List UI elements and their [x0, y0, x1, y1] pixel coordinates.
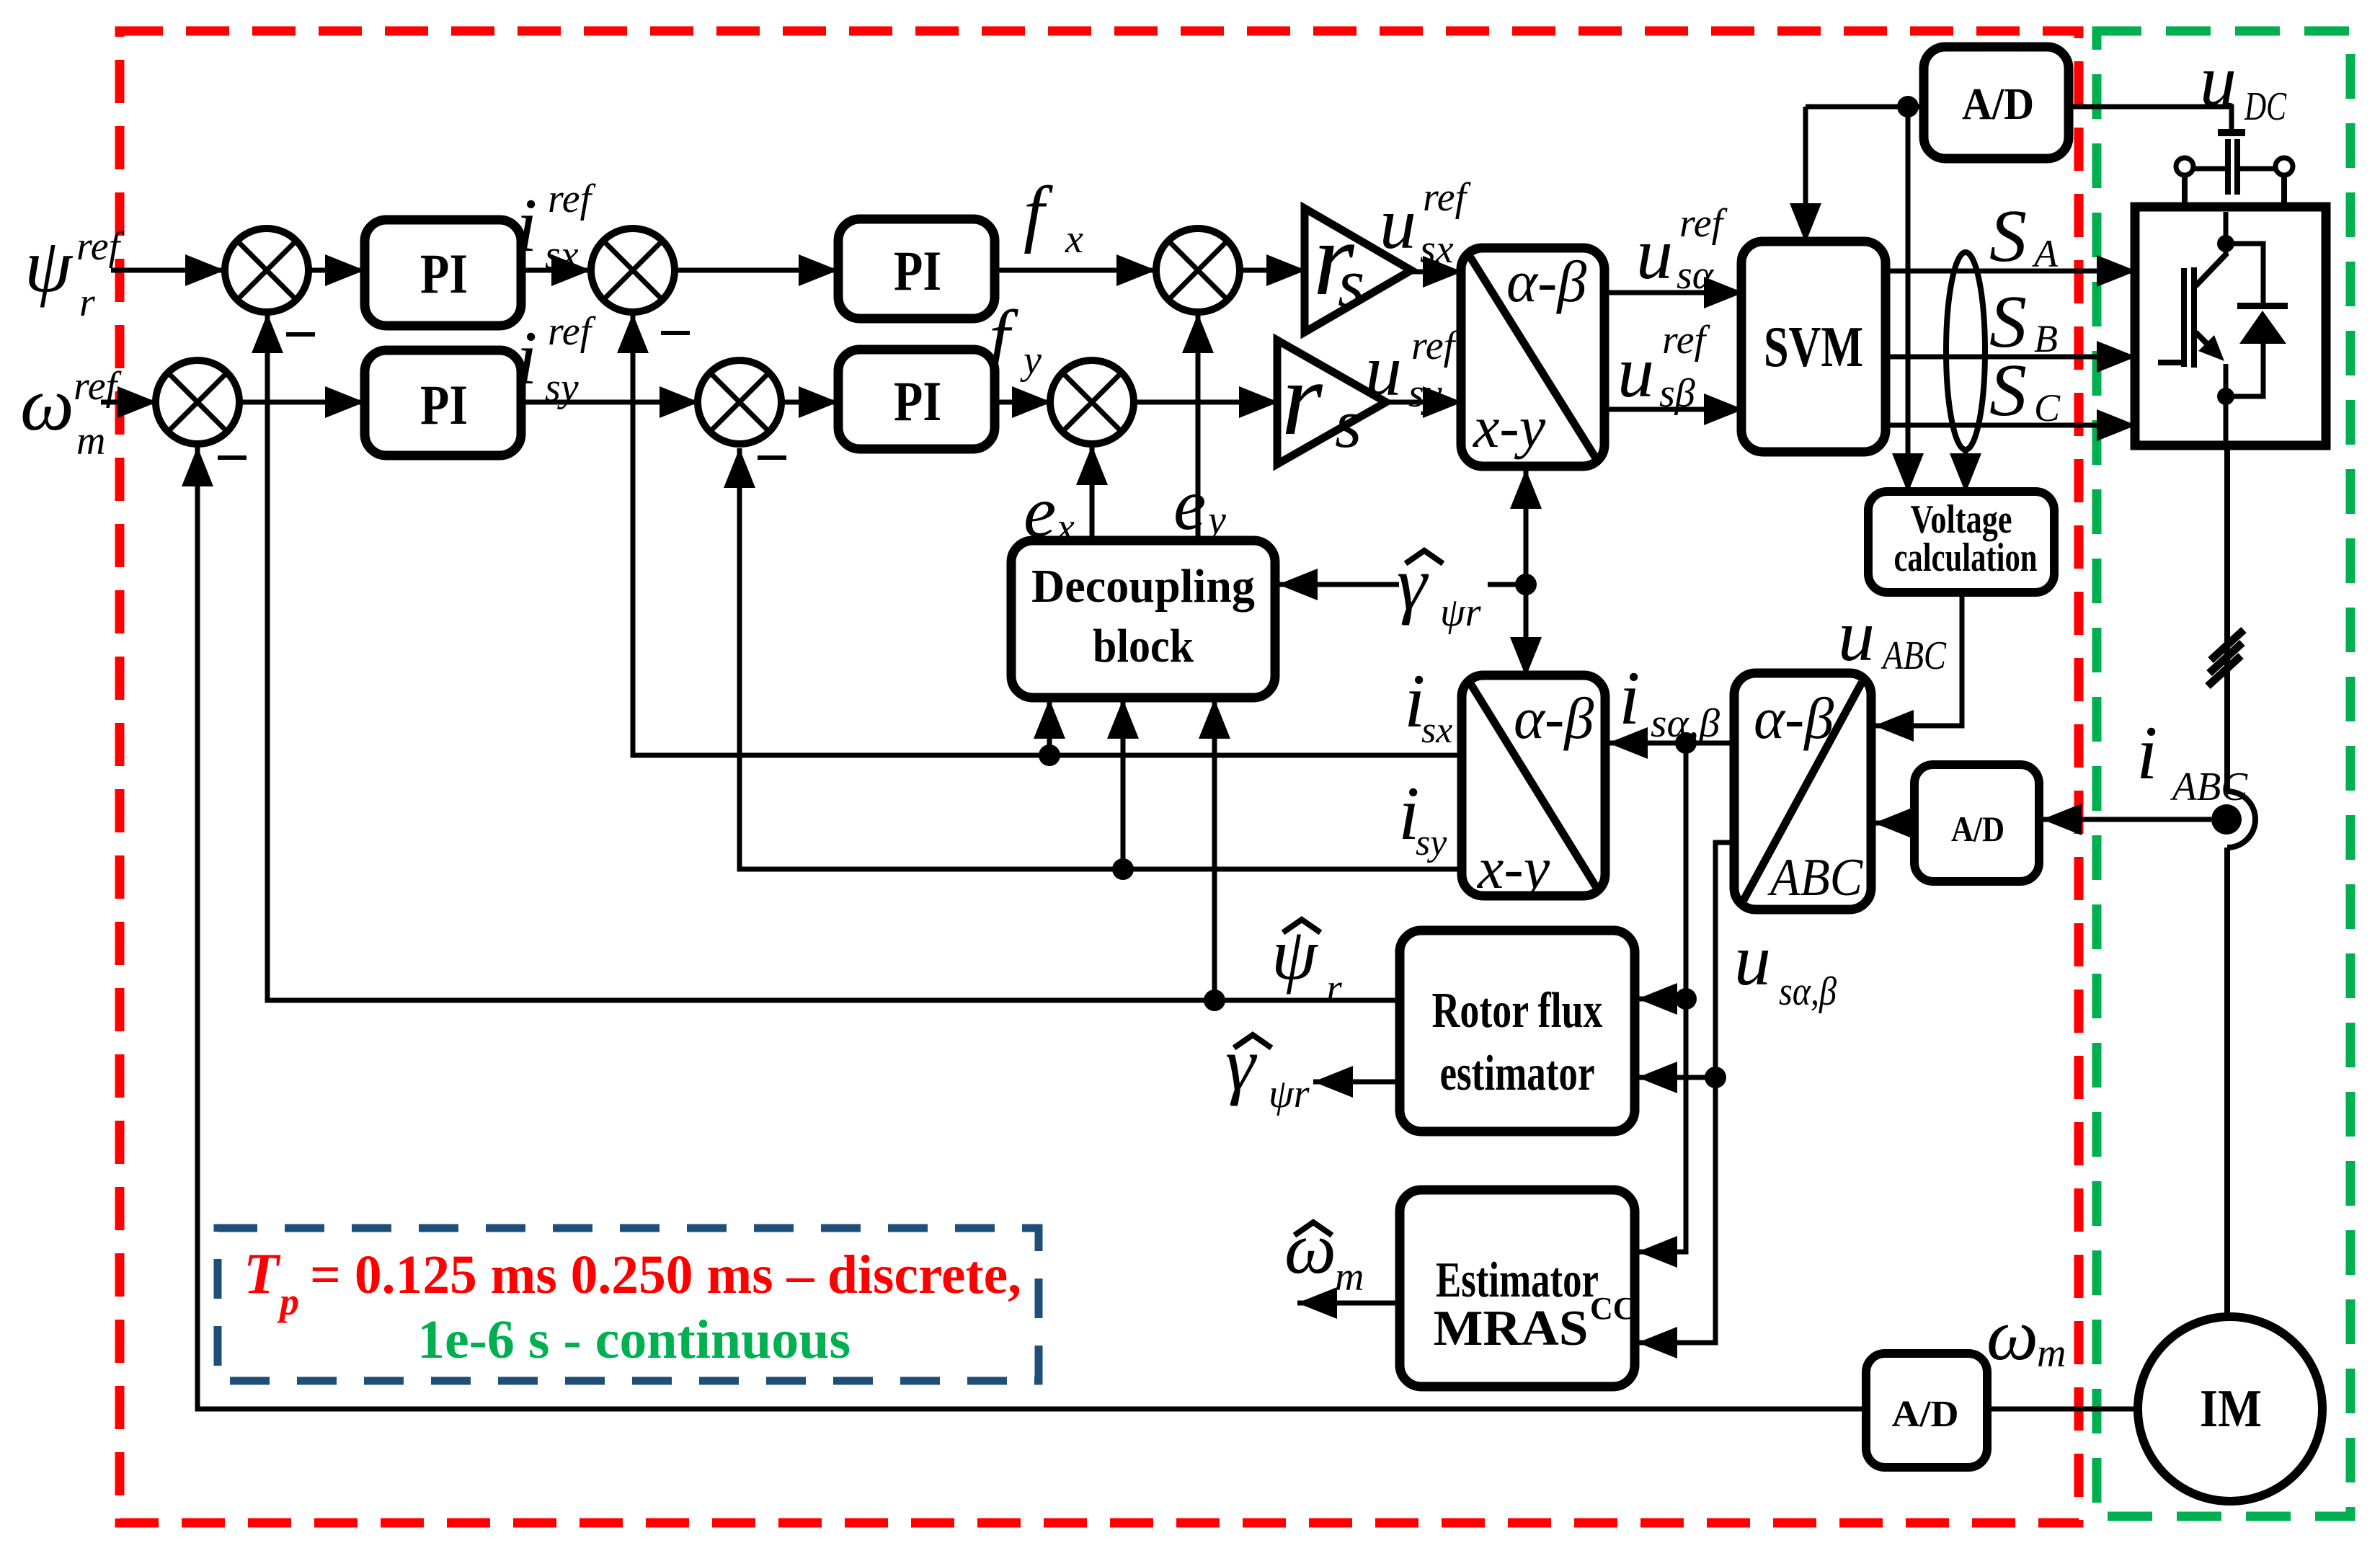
label u_sa_ref	[1636, 201, 1728, 298]
junction current sensor tap	[2211, 804, 2242, 835]
wire i_sx junction to decoupling	[1034, 699, 1065, 755]
label i_sx	[1404, 659, 1452, 751]
wire C1 to amp rs1	[1240, 254, 1306, 286]
block SVM (space vector modulator)	[1741, 241, 1886, 452]
wire u_ABC voltage calc to ABC transform	[1874, 592, 1962, 742]
block estimator MRAS	[1400, 1190, 1636, 1387]
block decoupling	[1011, 541, 1275, 698]
svg-text:ψr: ψr	[1269, 1072, 1310, 1116]
node omega_m_ref input label	[20, 362, 123, 463]
junction gamma_psi_r	[1515, 574, 1537, 595]
label i_sy_ref	[516, 309, 597, 410]
svg-text:SVM: SVM	[1764, 316, 1863, 379]
label gamma_psi_r at decoupling	[1397, 541, 1481, 635]
block inverter (VSI)	[2135, 207, 2326, 445]
svg-text:Estimator: Estimator	[1436, 1253, 1599, 1308]
junction IGBT emitter node	[2217, 388, 2234, 405]
wire IGBT collector diagonal	[2195, 253, 2227, 286]
svg-text:u: u	[1380, 183, 1416, 264]
capacitor tap bar	[2218, 129, 2245, 136]
wire B2 to PI4	[781, 386, 838, 418]
capacitor C (DC link)	[2228, 139, 2237, 195]
svg-text:α-β: α-β	[1514, 685, 1594, 751]
wire e_x to C2	[1076, 445, 1108, 541]
svg-text:S: S	[1989, 195, 2027, 277]
svg-text:C: C	[2034, 386, 2061, 430]
svg-text:IM: IM	[2200, 1379, 2262, 1438]
wire diode branch bottom	[2226, 344, 2263, 396]
svg-text:m: m	[2037, 1331, 2066, 1376]
svg-text:estimator: estimator	[1440, 1046, 1595, 1101]
wire B1 to PI3	[675, 254, 838, 286]
wire junction down to voltage calculation	[1892, 107, 1924, 493]
wire i_ABC sensor to A/D	[2042, 804, 2211, 835]
svg-text:ABC: ABC	[1881, 633, 1947, 678]
svg-text:p: p	[277, 1280, 299, 1323]
svg-text:T: T	[244, 1242, 281, 1306]
junction i_s_alphabeta	[1675, 732, 1697, 754]
svg-text:A/D: A/D	[1951, 809, 2004, 849]
svg-text:sα: sα	[1677, 253, 1715, 298]
svg-text:ABC: ABC	[2170, 765, 2248, 809]
block A/D (speed)	[1866, 1353, 1987, 1467]
wire u_sab from ABC transform	[1715, 842, 1734, 1077]
wire A2 to PI2	[239, 386, 365, 418]
wire ABC transform to current xy transform	[1608, 727, 1734, 759]
svg-text:A/D: A/D	[1892, 1394, 1959, 1435]
svg-text:x: x	[1056, 505, 1075, 550]
block current transform alpha-beta to x-y	[1462, 675, 1605, 901]
wire i_sab down to MRAS	[1638, 999, 1686, 1268]
svg-text:B: B	[2034, 317, 2058, 360]
svg-text:e: e	[1024, 471, 1056, 553]
svg-text:DC: DC	[2244, 84, 2286, 129]
minus sign at B1	[661, 331, 690, 335]
summing junction A1 (flux error)	[225, 228, 308, 312]
svg-text:sx: sx	[1420, 227, 1454, 272]
svg-text:u: u	[1838, 595, 1875, 677]
wire left terminal to inverter	[2182, 175, 2188, 208]
label u_sx_ref	[1380, 175, 1472, 272]
wire PI3 to C1 (f_x)	[995, 254, 1156, 286]
svg-text:sα,β: sα,β	[1779, 969, 1837, 1014]
wire i_sx feedback	[617, 314, 1462, 755]
wire IGBT collector stub	[2224, 212, 2229, 254]
wire omega_m_hat output stub	[1297, 1287, 1400, 1319]
block PI1 (flux controller)	[365, 220, 521, 326]
junction i_sab at estimator	[1675, 988, 1697, 1010]
wire IGBT gate lead	[2158, 360, 2184, 365]
minus sign at B2	[758, 455, 786, 460]
wire gamma to decoupling	[1278, 569, 1399, 600]
label i_sab	[1619, 656, 1720, 746]
svg-text:ref: ref	[1679, 201, 1728, 246]
amplifier r_s (row 2)	[1277, 340, 1386, 464]
label u_DC	[2200, 40, 2286, 129]
wire A/D left to SVM	[1790, 107, 1924, 243]
wire omega_m_ref input	[101, 386, 157, 418]
svg-text:ref: ref	[548, 177, 597, 221]
svg-text:sx: sx	[1421, 710, 1452, 751]
svg-text:ref: ref	[1411, 324, 1460, 368]
wire u_sab into rotor flux estimator	[1638, 1062, 1715, 1093]
wire psi_r junction to decoupling	[1199, 699, 1230, 1000]
wire IGBT emitter diagonal with arrow	[2195, 332, 2224, 361]
label f_x	[1024, 172, 1083, 262]
wire i_sy feedback	[724, 448, 1462, 869]
wire inverter to current sensor	[2224, 445, 2230, 791]
svg-text:ref: ref	[548, 309, 597, 354]
svg-text:sα,β: sα,β	[1651, 701, 1720, 746]
label S_A	[1989, 195, 2059, 277]
red dashed border (discrete subsystem boundary)	[120, 31, 2079, 1523]
summing junction B1 (i_sx error)	[591, 228, 675, 312]
summing junction C2 (adds e_x)	[1050, 360, 1134, 444]
diode D (freewheeling) cathode bar	[2237, 303, 2288, 309]
svg-text:ref: ref	[1662, 318, 1711, 363]
svg-text:sβ: sβ	[1659, 371, 1695, 416]
svg-text:ABC: ABC	[1767, 848, 1863, 907]
svg-text:u: u	[2200, 40, 2237, 122]
wire gamma junction up to voltage transform	[1510, 469, 1542, 584]
junction on u_DC measurement wire	[1897, 96, 1919, 117]
svg-text:ref: ref	[76, 224, 125, 269]
svg-text:PI: PI	[894, 370, 941, 432]
wire S_C	[1886, 409, 2136, 441]
three-phase slash marks	[2208, 630, 2244, 686]
junction psi_r to decoupling	[1204, 990, 1225, 1011]
svg-text:m: m	[1335, 1255, 1364, 1299]
wire rs2 to xy-ab transform	[1386, 386, 1462, 418]
wire gamma label to junction	[1488, 582, 1526, 587]
svg-text:i: i	[2136, 711, 2157, 795]
summing junction B2 (i_sy error)	[698, 360, 781, 444]
svg-text:y: y	[1204, 498, 1226, 543]
svg-text:s: s	[1335, 385, 1362, 462]
svg-text:r: r	[79, 280, 95, 325]
wire u_DC from A/D to capacitor	[2069, 107, 2232, 130]
cable bundle ellipse on gate signals	[1946, 252, 1985, 450]
label omega_m_hat	[1284, 1208, 1364, 1299]
label omega_m	[1986, 1294, 2066, 1376]
label psi_r_hat	[1271, 914, 1342, 1011]
wire PI4 to C2 (f_y)	[995, 386, 1052, 418]
label e_x	[1024, 471, 1075, 553]
wire S_A	[1886, 255, 2136, 287]
wire IM to A/D speed	[1987, 1407, 2138, 1412]
label continuous (green)	[417, 1309, 851, 1370]
label S_C	[1989, 349, 2061, 432]
label e_y	[1173, 464, 1226, 546]
wire PI2 to B2	[521, 386, 699, 418]
minus sign at A1	[286, 332, 315, 337]
block A/D (DC-link voltage)	[1924, 47, 2069, 159]
wire A/D to ABC transform	[1874, 807, 1914, 839]
block PI2 (speed controller)	[365, 350, 521, 455]
block PI4 (i_sy current controller)	[838, 350, 995, 449]
svg-text:x-y: x-y	[1473, 394, 1546, 460]
svg-text:S: S	[1989, 349, 2027, 432]
svg-text:Decoupling: Decoupling	[1031, 560, 1255, 613]
junction u_sab at estimator	[1705, 1067, 1726, 1088]
label i_sy	[1398, 771, 1447, 863]
wire gamma junction down to current transform	[1510, 584, 1542, 677]
junction i_sx to decoupling	[1039, 744, 1060, 766]
wire i_sab down to rotor flux estimator	[1638, 743, 1686, 1015]
svg-text:block: block	[1093, 620, 1194, 672]
svg-text:PI: PI	[420, 373, 468, 436]
svg-text:ψr: ψr	[1440, 590, 1481, 635]
block voltage transform x-y to alpha-beta	[1461, 248, 1604, 466]
wire diode branch top	[2226, 244, 2263, 306]
svg-text:ω: ω	[1284, 1208, 1336, 1289]
block PI3 (i_sx current controller)	[838, 219, 995, 319]
wire psi_r_ref input	[111, 254, 225, 286]
label u_ABC	[1838, 595, 1947, 678]
svg-text:x: x	[1065, 217, 1083, 262]
summing junction C1 (adds e_y)	[1156, 228, 1240, 312]
motor IM	[2138, 1317, 2322, 1501]
label i_sx_ref	[516, 177, 597, 277]
svg-text:ref: ref	[1423, 175, 1472, 220]
svg-text:= 0.125 ms 0.250 ms – discrete: = 0.125 ms 0.250 ms – discrete,	[310, 1245, 1021, 1305]
svg-text:sy: sy	[1408, 371, 1442, 416]
wire psi_r_hat feedback	[252, 314, 1400, 1000]
green dashed border (continuous subsystem boundary)	[2097, 31, 2350, 1516]
svg-text:u: u	[1365, 330, 1402, 412]
svg-text:A: A	[2032, 232, 2059, 275]
label T_p discrete (red)	[244, 1242, 1021, 1323]
svg-text:r: r	[1282, 340, 1323, 457]
label gamma_psi_r output	[1225, 1022, 1310, 1116]
node psi_r_ref input label	[25, 223, 125, 325]
wire i_sy junction to decoupling	[1107, 699, 1139, 869]
label S_B	[1989, 280, 2058, 363]
wire rs1 to xy-ab transform	[1411, 256, 1462, 288]
wire bundle to voltage calculation	[1950, 450, 1981, 493]
wire DC bus right plate	[2237, 166, 2284, 172]
block A/D (phase currents)	[1914, 765, 2039, 881]
label u_sab	[1734, 920, 1837, 1014]
svg-text:r: r	[1326, 966, 1342, 1011]
svg-text:CC: CC	[1590, 1291, 1636, 1326]
svg-text:e: e	[1173, 464, 1206, 546]
svg-text:sx: sx	[545, 233, 579, 277]
wire A1 to PI1	[308, 254, 365, 286]
summing junction A2 (speed error)	[156, 360, 239, 444]
wire u_sa_ref to SVM	[1604, 277, 1744, 308]
junction IGBT collector node	[2217, 235, 2234, 252]
svg-text:u: u	[1636, 213, 1673, 295]
minus sign at A2	[218, 455, 247, 460]
svg-text:ω: ω	[20, 362, 74, 446]
block voltage calculation	[1868, 492, 2054, 592]
svg-text:PI: PI	[894, 239, 941, 302]
svg-text:1e-6 s - continuous: 1e-6 s - continuous	[417, 1309, 851, 1370]
svg-text:s: s	[1338, 244, 1364, 321]
svg-text:sy: sy	[545, 365, 579, 410]
label u_sb_ref	[1617, 318, 1711, 416]
svg-text:Rotor flux: Rotor flux	[1432, 983, 1603, 1039]
wire inverter output phase	[2224, 396, 2229, 445]
svg-text:α-β: α-β	[1506, 249, 1586, 314]
svg-text:PI: PI	[420, 242, 468, 305]
junction i_sy to decoupling	[1112, 858, 1134, 880]
svg-text:y: y	[1020, 338, 1042, 383]
wire sensor to motor	[2224, 848, 2230, 1318]
wire right terminal to inverter	[2281, 175, 2287, 208]
svg-text:ψ: ψ	[25, 223, 74, 308]
svg-text:i: i	[516, 316, 537, 400]
label i_ABC	[2136, 711, 2248, 809]
svg-text:MRAS: MRAS	[1434, 1301, 1589, 1356]
wire C2 to amp rs2	[1134, 386, 1279, 418]
wire u_sb_ref to SVM	[1604, 393, 1744, 425]
wire DC bus left plate	[2185, 166, 2228, 172]
blue dashed parameter box	[218, 1228, 1039, 1381]
amplifier r_s (row 1)	[1305, 200, 1411, 332]
wire speed feedback	[182, 447, 1866, 1409]
wire u_sab down to MRAS	[1638, 1077, 1715, 1359]
svg-text:A/D: A/D	[1962, 80, 2034, 129]
diode D (freewheeling) body	[2239, 311, 2286, 344]
wire S_B	[1886, 341, 2136, 373]
svg-text:sy: sy	[1416, 822, 1447, 863]
svg-text:i: i	[516, 183, 537, 267]
svg-text:α-β: α-β	[1754, 685, 1834, 751]
terminal circle right	[2275, 158, 2293, 175]
wire PI1 to B1	[521, 254, 591, 286]
svg-text:x-y: x-y	[1477, 835, 1550, 901]
transistor IGBT gate bars	[2184, 267, 2194, 368]
terminal circle left	[2176, 158, 2193, 175]
svg-text:calculation: calculation	[1894, 535, 2038, 580]
label f_y	[989, 295, 1042, 383]
svg-text:ω: ω	[1986, 1294, 2038, 1376]
wire IGBT emitter	[2224, 364, 2229, 404]
svg-text:i: i	[1619, 656, 1640, 740]
wire gamma_psi_r output stub	[1313, 1066, 1400, 1098]
block current transform ABC to alpha-beta	[1734, 673, 1871, 910]
svg-text:u: u	[1734, 920, 1771, 1001]
wire e_y to C1	[1182, 314, 1214, 541]
current sensor bypass arc	[2227, 791, 2255, 848]
svg-text:m: m	[76, 419, 105, 463]
label u_sy_ref	[1365, 324, 1460, 416]
block rotor flux estimator	[1400, 930, 1635, 1131]
svg-text:u: u	[1617, 332, 1654, 413]
